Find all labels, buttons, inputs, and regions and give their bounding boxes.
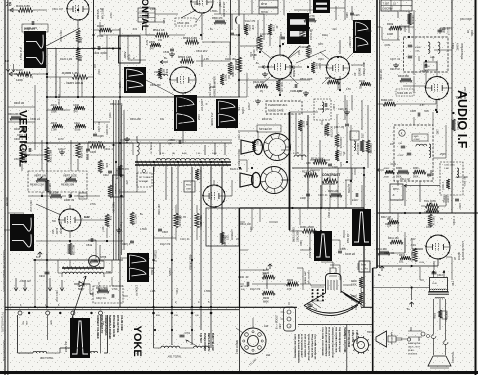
wire hv net bbox=[154, 205, 198, 240]
svg-text:K: K bbox=[401, 131, 403, 135]
svg-text:REPLACE AXE NUMBERED: REPLACE AXE NUMBERED bbox=[297, 334, 300, 363]
svg-text:.005: .005 bbox=[424, 110, 429, 113]
wire W8 pointer bbox=[36, 204, 61, 215]
label value bbox=[14, 158, 26, 161]
svg-text:VIEWED FROM THE BOTTOM: VIEWED FROM THE BOTTOM bbox=[331, 327, 333, 358]
junction bbox=[112, 144, 114, 146]
connector tuner lower socket bbox=[261, 167, 288, 194]
svg-text:10K: 10K bbox=[165, 69, 168, 74]
label value bbox=[318, 194, 328, 197]
svg-text:R116: R116 bbox=[248, 25, 251, 31]
svg-text:R617 250: R617 250 bbox=[72, 245, 74, 256]
svg-text:4BZ6: 4BZ6 bbox=[470, 30, 473, 36]
label value bbox=[460, 18, 472, 21]
svg-text:6.8K: 6.8K bbox=[252, 54, 257, 57]
junction bbox=[350, 180, 352, 182]
svg-text:FUSES FUS3B8: FUSES FUS3B8 bbox=[203, 333, 206, 351]
resistor R312 47K bbox=[410, 248, 417, 262]
capacitor C208 bbox=[238, 276, 249, 291]
svg-text:4.5T: 4.5T bbox=[420, 105, 425, 107]
svg-text:140V: 140V bbox=[280, 323, 282, 329]
svg-text:R611 7.2: R611 7.2 bbox=[134, 214, 137, 224]
svg-text:L106, L102: L106, L102 bbox=[351, 330, 354, 343]
resistor R117 1K bbox=[325, 76, 340, 84]
resistor R200 100K bbox=[351, 277, 363, 288]
svg-text:C701: C701 bbox=[185, 333, 191, 335]
resistor R522 bbox=[158, 68, 168, 79]
svg-text:C510 .047: C510 .047 bbox=[20, 280, 32, 283]
wire vert top left bbox=[8, 8, 47, 12]
capacitor C11B bbox=[318, 103, 330, 111]
svg-text:H: H bbox=[205, 103, 208, 105]
wire audio drops bbox=[405, 186, 430, 213]
tube pins V10 bbox=[267, 55, 292, 80]
wire audio B- rail bbox=[373, 259, 438, 311]
svg-text:-7.4V: -7.4V bbox=[410, 239, 416, 241]
label value bbox=[248, 102, 251, 110]
capacitor C408 bbox=[24, 21, 37, 30]
svg-text:TBL: TBL bbox=[237, 107, 240, 112]
svg-text:V4: V4 bbox=[353, 72, 357, 76]
resistor R306 560K bbox=[413, 168, 433, 179]
junction bbox=[46, 306, 48, 308]
svg-text:LTO CONN: LTO CONN bbox=[235, 340, 239, 354]
wire bottom band divider bbox=[5, 307, 373, 309]
svg-text:R500 47K: R500 47K bbox=[212, 17, 223, 20]
svg-text:4BN6: 4BN6 bbox=[460, 92, 463, 99]
wire hi rect leads bbox=[214, 180, 232, 208]
lamp B101 bbox=[89, 256, 107, 267]
transformer T90 core bbox=[428, 278, 449, 295]
svg-text:T601: T601 bbox=[106, 271, 112, 274]
svg-text:R604 33K: R604 33K bbox=[8, 113, 19, 116]
resistor R604 33K bbox=[8, 113, 22, 120]
junction bbox=[452, 112, 454, 114]
svg-text:R120 2.2M: R120 2.2M bbox=[230, 168, 242, 171]
capacitor C512 bbox=[163, 49, 174, 54]
svg-text:MTM: MTM bbox=[393, 188, 398, 191]
waveform display W1 vert output 175V P-P bbox=[19, 31, 46, 68]
svg-text:R10: R10 bbox=[256, 141, 259, 146]
junction bbox=[55, 96, 57, 98]
label value bbox=[198, 114, 201, 120]
resistor R610 1.8M bbox=[88, 140, 105, 148]
boxed label audio top bbox=[381, 0, 412, 11]
tube pins V16 bbox=[202, 185, 225, 208]
label value bbox=[150, 8, 156, 11]
resistor R431 bbox=[51, 104, 63, 114]
junction bbox=[307, 66, 309, 68]
svg-text:560K: 560K bbox=[384, 177, 390, 179]
resistor R305 1K bbox=[452, 119, 459, 131]
connector yoke plug body bbox=[18, 315, 108, 353]
label terminal location bbox=[343, 327, 358, 353]
label value bbox=[112, 288, 118, 291]
svg-text:R116: R116 bbox=[309, 48, 312, 54]
svg-text:1.5M: 1.5M bbox=[51, 129, 57, 132]
svg-text:R611 400K: R611 400K bbox=[80, 146, 83, 159]
label value bbox=[380, 69, 383, 80]
svg-text:.047: .047 bbox=[126, 180, 129, 185]
svg-text:-480V: -480V bbox=[123, 51, 127, 59]
capacitor C302 22 bbox=[438, 27, 450, 36]
svg-text:5 BLK: 5 BLK bbox=[150, 268, 154, 275]
wire crt base pins bbox=[307, 262, 336, 308]
svg-text:175V P-P: 175V P-P bbox=[19, 47, 23, 60]
svg-text:C604 .1: C604 .1 bbox=[453, 216, 456, 225]
wire audio upper divider bbox=[451, 0, 453, 213]
resistor R130 10K bbox=[328, 190, 342, 197]
svg-text:C510 .047: C510 .047 bbox=[14, 158, 26, 161]
svg-text:R60B 22K: R60B 22K bbox=[106, 124, 109, 135]
capacitor C132 bbox=[335, 150, 345, 161]
terminal posts yoke bbox=[18, 311, 103, 353]
svg-text:R310 1K: R310 1K bbox=[432, 216, 435, 226]
label value bbox=[52, 8, 64, 11]
tube V10 sync sep bbox=[268, 55, 292, 79]
label left border notes 2 bbox=[2, 340, 5, 361]
resistor R515 12K bbox=[178, 55, 194, 63]
label value bbox=[105, 218, 110, 221]
label cluster texts bbox=[14, 50, 216, 141]
wire crt connections bbox=[300, 230, 340, 280]
junction bbox=[191, 306, 193, 308]
junction bbox=[200, 161, 202, 163]
svg-text:R502 100K: R502 100K bbox=[300, 78, 313, 81]
label 1700 PP col bbox=[135, 285, 138, 296]
junction bbox=[119, 47, 121, 49]
junction bbox=[120, 195, 122, 197]
junction bbox=[291, 207, 293, 209]
capacitor C305 bbox=[410, 110, 429, 117]
label tone sw bbox=[442, 196, 449, 203]
wire video grid net bbox=[289, 219, 345, 253]
svg-text:L106: L106 bbox=[150, 290, 156, 293]
label value bbox=[90, 293, 95, 296]
svg-text:TONE: TONE bbox=[442, 196, 445, 203]
svg-text:MODELS: MODELS bbox=[408, 354, 418, 356]
svg-text:CONTRAST: CONTRAST bbox=[322, 173, 340, 177]
wire bottom center drops bbox=[252, 168, 362, 230]
junction bbox=[210, 161, 212, 163]
label 112V bbox=[84, 215, 90, 219]
dashed box noise gate bbox=[266, 101, 302, 114]
connector headphone jack bbox=[408, 327, 430, 356]
wire main section divider bbox=[373, 0, 380, 372]
resistor R316b bbox=[399, 254, 411, 264]
svg-text:2&4: 2&4 bbox=[266, 354, 271, 357]
svg-text:SS CE2 63: SS CE2 63 bbox=[259, 128, 272, 131]
junction bbox=[69, 240, 71, 242]
resistor R516 6.8K bbox=[183, 36, 199, 44]
junction bbox=[119, 142, 121, 144]
resistor R121 10K bbox=[276, 80, 282, 93]
resistor R613b 10K bbox=[105, 214, 112, 227]
junction bbox=[288, 283, 290, 285]
svg-text:C514(A) .05: C514(A) .05 bbox=[150, 142, 153, 155]
svg-text:10GN5: 10GN5 bbox=[458, 251, 461, 260]
svg-text:4.5MC: 4.5MC bbox=[204, 290, 211, 293]
svg-text:SPEAKER: SPEAKER bbox=[451, 352, 454, 363]
svg-text:C303 .3: C303 .3 bbox=[420, 70, 429, 73]
label value bbox=[456, 176, 468, 179]
svg-text:QUAD DET: QUAD DET bbox=[464, 86, 467, 99]
svg-text:4600V P-P: 4600V P-P bbox=[210, 112, 214, 126]
wire pot links bbox=[28, 164, 100, 197]
resistor R620 4.7K bbox=[115, 165, 122, 180]
dashed box L120 bbox=[314, 99, 335, 120]
resistor R524 bbox=[149, 41, 161, 51]
junction bbox=[191, 329, 193, 331]
resistor R406 1.2M vert hold bbox=[47, 71, 93, 85]
label T90 bbox=[451, 281, 455, 286]
svg-text:12AU7: 12AU7 bbox=[248, 102, 251, 110]
wire lto leads bbox=[236, 318, 253, 333]
svg-text:R521 1.5M: R521 1.5M bbox=[55, 290, 58, 302]
wire R405 leads bbox=[9, 72, 48, 76]
wire video out pins bbox=[240, 277, 312, 289]
svg-text:C114 .1: C114 .1 bbox=[300, 46, 309, 49]
svg-text:NTH8: NTH8 bbox=[100, 256, 107, 259]
wire diag yoke arrow bbox=[71, 276, 86, 321]
resistor R310 1K bbox=[428, 214, 435, 227]
junction bbox=[185, 96, 187, 98]
resistor R220 27K bbox=[351, 288, 363, 307]
svg-text:R618: R618 bbox=[345, 12, 348, 18]
svg-text:R115 100K: R115 100K bbox=[255, 38, 259, 51]
label value bbox=[384, 44, 391, 47]
svg-text:C3Z: C3Z bbox=[351, 305, 354, 310]
svg-text:L507: L507 bbox=[361, 133, 363, 139]
svg-text:0V: 0V bbox=[260, 90, 263, 93]
svg-text:NPO: NPO bbox=[318, 43, 323, 46]
svg-text:C516: C516 bbox=[162, 231, 168, 234]
waveform display W4 horiz 4600V P-P bbox=[210, 99, 238, 128]
svg-text:C506 .01: C506 .01 bbox=[328, 207, 331, 218]
capacitor C108 bbox=[290, 84, 303, 93]
wire audio out extra bbox=[412, 238, 452, 280]
svg-text:R119 18K: R119 18K bbox=[158, 204, 161, 215]
label value bbox=[345, 253, 355, 256]
resistor R523 bbox=[220, 74, 230, 85]
svg-text:120K: 120K bbox=[16, 78, 23, 82]
svg-text:3600: 3600 bbox=[414, 136, 420, 138]
svg-text:100K: 100K bbox=[387, 32, 393, 36]
svg-text:180K: 180K bbox=[186, 189, 192, 191]
svg-text:B+: B+ bbox=[164, 56, 168, 60]
transformer T50 flyback core bbox=[135, 161, 231, 167]
wire sync diag to W6 bbox=[256, 46, 326, 69]
label value bbox=[29, 200, 32, 212]
svg-text:R131: R131 bbox=[315, 63, 318, 70]
wire sync tube top bbox=[258, 46, 302, 95]
label value bbox=[403, 26, 406, 33]
wire vert net a bbox=[94, 30, 121, 48]
svg-text:R410 560K: R410 560K bbox=[460, 18, 472, 21]
wire vert mid rail bbox=[47, 142, 120, 144]
connector tuner lower funnel bbox=[240, 173, 261, 188]
wire horiz tube drop bbox=[181, 10, 215, 143]
svg-text:.047: .047 bbox=[149, 48, 154, 51]
label bundle R60B bbox=[106, 112, 112, 135]
wire terminal arrows left bbox=[14, 278, 64, 291]
junction bbox=[171, 306, 173, 308]
svg-text:431 TOTAL: 431 TOTAL bbox=[168, 355, 182, 359]
svg-text:4.5MC: 4.5MC bbox=[456, 43, 460, 51]
speaker earphone small bbox=[376, 331, 393, 347]
wire horiz drops cluster bbox=[160, 97, 225, 155]
capacitor C119 bbox=[352, 193, 358, 202]
wire yoke leads drop bbox=[154, 167, 193, 307]
svg-text:105V: 105V bbox=[426, 226, 432, 229]
potentiometer box VERT LIN VERT SIZE bbox=[28, 171, 87, 192]
svg-text:THE REFERENCE PAGE: THE REFERENCE PAGE bbox=[338, 327, 341, 353]
svg-text:287: 287 bbox=[94, 63, 97, 68]
svg-text:117V PP: 117V PP bbox=[97, 282, 99, 291]
junction bbox=[408, 36, 410, 38]
label value bbox=[210, 28, 214, 31]
svg-text:2V: 2V bbox=[409, 92, 412, 95]
svg-text:AUDIO OUTPUT: AUDIO OUTPUT bbox=[462, 241, 465, 260]
label value bbox=[110, 103, 123, 106]
capacitor C115 bbox=[350, 13, 360, 17]
svg-text:R311 150: R311 150 bbox=[388, 237, 399, 240]
resistor R611 400K bbox=[76, 143, 83, 159]
resistor R401 6.8K bbox=[16, 4, 33, 12]
svg-text:BLU OR BLK: BLU OR BLK bbox=[189, 255, 193, 271]
label value bbox=[150, 290, 156, 293]
svg-text:B + + BOOST: B + + BOOST bbox=[277, 314, 279, 329]
label value bbox=[318, 43, 323, 46]
svg-text:.01: .01 bbox=[275, 25, 278, 29]
label value bbox=[30, 118, 41, 121]
transformer T90 windings bbox=[431, 283, 447, 299]
svg-text:4.7K: 4.7K bbox=[259, 141, 262, 146]
svg-text:R610 1.8M: R610 1.8M bbox=[88, 140, 102, 144]
small box R50Z bbox=[184, 181, 195, 192]
svg-text:BURY YELLOW: BURY YELLOW bbox=[211, 333, 214, 351]
svg-text:560K: 560K bbox=[413, 177, 419, 179]
svg-text:R511 1.2: R511 1.2 bbox=[199, 170, 201, 180]
resistor R302 100K bbox=[387, 22, 402, 36]
label noise inv bbox=[290, 64, 297, 77]
resistor R318 47 bbox=[433, 310, 447, 321]
svg-text:C604 .1: C604 .1 bbox=[17, 134, 26, 137]
label value bbox=[55, 290, 58, 302]
label value bbox=[158, 204, 161, 215]
svg-text:BOTTOM VIEW: BOTTOM VIEW bbox=[347, 330, 350, 348]
junction bbox=[46, 142, 48, 144]
svg-text:T103: T103 bbox=[162, 18, 165, 24]
component value table bbox=[22, 24, 48, 32]
junction bbox=[239, 167, 241, 169]
label V8 sound det bbox=[466, 30, 473, 36]
wire sync section divider bbox=[289, 112, 291, 230]
svg-text:L106: L106 bbox=[102, 226, 105, 232]
label value bbox=[126, 180, 129, 185]
svg-text:SCREEN: SCREEN bbox=[323, 126, 325, 136]
capacitor C405 bbox=[86, 149, 97, 154]
svg-text:.047: .047 bbox=[132, 28, 137, 31]
svg-text:R433: R433 bbox=[51, 122, 58, 125]
label TUNER CONN bbox=[237, 149, 241, 168]
junction bbox=[77, 47, 79, 49]
dashed box phase detector bbox=[137, 169, 152, 187]
label value bbox=[260, 33, 270, 36]
svg-text:COLOR CODE: COLOR CODE bbox=[120, 315, 122, 331]
resistor R116 words bbox=[306, 45, 312, 58]
connector tuner upper funnel bbox=[241, 140, 263, 155]
svg-text:GE2: GE2 bbox=[80, 197, 85, 199]
svg-text:R132: R132 bbox=[359, 80, 366, 83]
svg-text:560: 560 bbox=[90, 293, 95, 296]
junction bbox=[419, 212, 421, 214]
resistor R313 150 bbox=[388, 237, 416, 244]
svg-text:200|150V: 200|150V bbox=[24, 27, 35, 31]
label value bbox=[162, 18, 165, 24]
svg-text:C402 .0039: C402 .0039 bbox=[93, 51, 107, 55]
label value bbox=[102, 226, 105, 232]
svg-text:C513 .001: C513 .001 bbox=[177, 21, 190, 25]
junction bbox=[363, 167, 365, 169]
svg-text:+180V PP: +180V PP bbox=[348, 36, 352, 48]
resistor R514 1K bbox=[153, 28, 169, 42]
wire video extra bbox=[240, 222, 358, 290]
label value bbox=[204, 290, 211, 293]
label value bbox=[104, 148, 113, 151]
tube V7 audio output bbox=[426, 235, 465, 260]
resistor R314b bbox=[387, 218, 399, 228]
label value bbox=[253, 49, 256, 60]
transformer T601 winding bbox=[62, 271, 112, 277]
resistor R30B 560K bbox=[396, 168, 409, 179]
pin dots video grid bbox=[311, 287, 324, 301]
label value bbox=[340, 248, 346, 251]
resistor R433 bbox=[51, 122, 63, 132]
label value bbox=[318, 58, 324, 61]
svg-text:R301 150K: R301 150K bbox=[300, 225, 314, 229]
svg-text:WITH SAME COLOR: WITH SAME COLOR bbox=[112, 315, 115, 337]
junction bbox=[320, 207, 322, 209]
waveform display W10 1700V P-P bbox=[64, 318, 90, 358]
resistor R206 680K bbox=[262, 291, 275, 304]
svg-text:R409: R409 bbox=[79, 55, 83, 62]
tube pins V4 bbox=[326, 56, 350, 80]
label 400 TOTAL bbox=[40, 356, 54, 360]
label minus volts bbox=[296, 90, 307, 97]
svg-text:FROM THE BOTTOM THE: FROM THE BOTTOM THE bbox=[307, 334, 309, 361]
svg-text:R50Z: R50Z bbox=[186, 185, 192, 187]
svg-text:560: 560 bbox=[52, 220, 57, 223]
svg-text:CRT SOCKET: CRT SOCKET bbox=[309, 269, 311, 284]
capacitor C515 bbox=[122, 241, 134, 246]
wire flyback top rail bbox=[120, 142, 232, 144]
svg-text:R11A: R11A bbox=[322, 34, 328, 37]
junction bbox=[92, 96, 94, 98]
svg-text:C403: C403 bbox=[98, 135, 105, 138]
svg-text:R121 2.2M: R121 2.2M bbox=[356, 143, 359, 155]
arrow B+ audio bbox=[378, 266, 384, 277]
dashed box quad coil bbox=[394, 125, 433, 181]
svg-text:R31Z 47K: R31Z 47K bbox=[410, 251, 413, 262]
resistor R123 bbox=[335, 134, 342, 149]
svg-text:WN 2.0V: WN 2.0V bbox=[102, 9, 105, 19]
capacitor C114 bbox=[279, 32, 285, 39]
resistor R500 47K bbox=[212, 17, 226, 24]
capacitor C309 bbox=[455, 199, 460, 209]
svg-text:6BQ7: 6BQ7 bbox=[403, 26, 406, 33]
diode M608 bbox=[74, 282, 90, 292]
